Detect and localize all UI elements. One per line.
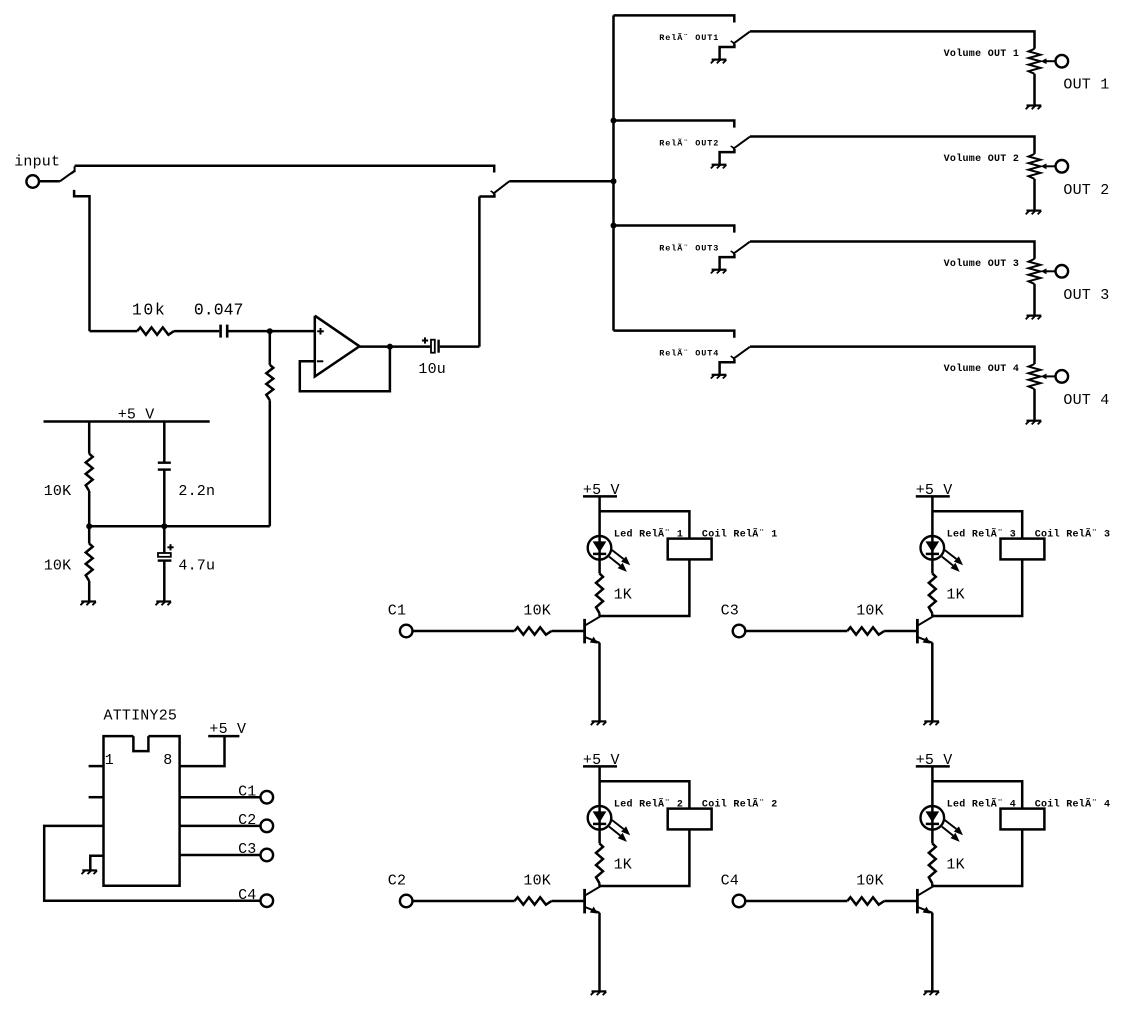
LED D3 <box>921 536 945 560</box>
svg-text:1K: 1K <box>946 857 964 874</box>
wire (branch to relay 3) <box>614 226 735 233</box>
label 0.047 <box>194 301 244 320</box>
wire (+5V rail) <box>44 420 210 423</box>
LED D4 light arrows <box>942 820 963 842</box>
svg-text:2.2n: 2.2n <box>178 483 215 500</box>
label Led RelA" 3 <box>947 527 1016 541</box>
label C3 <box>238 841 256 858</box>
label Led RelA" 4 <box>947 797 1016 811</box>
LED D1 <box>588 536 612 560</box>
svg-text:RelÃ¨ OUT4: RelÃ¨ OUT4 <box>659 347 719 358</box>
node (bus branch 3) <box>611 223 617 229</box>
wire <box>598 766 601 843</box>
LED D1 light arrows <box>609 550 630 572</box>
wire <box>1033 74 1036 106</box>
label 1K <box>614 587 632 604</box>
ground (driver 3) <box>924 721 940 725</box>
wire <box>745 630 847 633</box>
wire <box>269 331 272 365</box>
output jack OUT 1 <box>1056 55 1069 68</box>
label C2 <box>238 812 256 829</box>
pot 2 wiper arrow <box>1041 163 1055 169</box>
resistor 10K (driver 4) <box>847 897 884 904</box>
svg-text:C1: C1 <box>388 603 406 620</box>
label RelA" OUT3 <box>659 242 719 253</box>
label 10K <box>523 873 551 890</box>
transistor Q1 <box>585 616 601 644</box>
wire (relay 1 to volume pot) <box>750 31 1035 48</box>
ground (relay 3) <box>711 270 727 274</box>
jack C1 <box>261 791 274 804</box>
svg-text:Coil RelÃ¨ 1: Coil RelÃ¨ 1 <box>702 527 778 541</box>
wire (pin 4 to ground) <box>90 856 103 870</box>
wire <box>440 345 480 348</box>
label Volume OUT 2 <box>944 153 1020 165</box>
label OUT 2 <box>1063 182 1109 199</box>
label Volume OUT 3 <box>944 258 1020 270</box>
jack C1 (driver input) <box>400 625 413 638</box>
capacitor 4.7u (polarized) <box>158 544 174 560</box>
wire (emitter) <box>931 913 934 991</box>
relay coil K3 <box>1001 539 1045 560</box>
wire <box>1033 284 1036 316</box>
relay switch K4 arm <box>731 347 750 359</box>
wire (pin 3 to C4) <box>44 826 260 901</box>
power +5 V label <box>118 406 155 423</box>
wire <box>39 180 60 183</box>
svg-text:10K: 10K <box>44 558 72 575</box>
wire <box>229 330 315 333</box>
power +5 V label (driver 1) <box>583 482 620 499</box>
label C1 (driver input) <box>388 603 406 620</box>
jack C3 (driver input) <box>733 625 746 638</box>
switch SW1 lower throw <box>74 190 89 331</box>
wire <box>933 559 1022 616</box>
svg-text:+5 V: +5 V <box>209 721 246 738</box>
label 1K <box>946 587 964 604</box>
label C4 <box>238 887 256 904</box>
label ATTINY25 <box>104 707 178 724</box>
pot 4 wiper arrow <box>1041 374 1055 380</box>
resistor 10K (driver 2) <box>515 897 552 904</box>
label C1 <box>238 783 256 800</box>
ground (driver 4) <box>924 991 940 995</box>
node <box>161 523 167 529</box>
relay switch K1 arm <box>731 32 750 44</box>
wire <box>413 900 515 903</box>
svg-text:10K: 10K <box>856 603 884 620</box>
potentiometer Volume 3 <box>1029 259 1041 284</box>
svg-text:Volume OUT 4: Volume OUT 4 <box>944 363 1020 375</box>
net label "input" <box>14 153 60 170</box>
label C4 (driver input) <box>721 873 739 890</box>
wire <box>88 581 91 601</box>
svg-text:1K: 1K <box>946 587 964 604</box>
svg-text:C3: C3 <box>721 603 739 620</box>
wire (branch to relay 1) <box>614 15 735 22</box>
wire <box>745 900 847 903</box>
node (output junction) <box>387 344 393 350</box>
wire <box>598 496 601 573</box>
power +5V bar (IC) <box>208 735 239 738</box>
svg-text:Coil RelÃ¨ 2: Coil RelÃ¨ 2 <box>702 797 778 811</box>
wire (relay 2 to volume pot) <box>750 137 1035 154</box>
wire <box>163 470 166 527</box>
resistor (bias, vertical) <box>266 365 273 400</box>
op-amp U1 <box>315 316 360 377</box>
switch SW1 arm <box>60 166 75 181</box>
ground (relay 2) <box>711 165 727 169</box>
LED D3 light arrows <box>942 550 963 572</box>
relay coil K2 <box>668 809 712 830</box>
pot 3 wiper arrow <box>1041 268 1055 274</box>
jack C2 <box>261 820 274 833</box>
svg-text:OUT 3: OUT 3 <box>1063 287 1109 304</box>
svg-text:1K: 1K <box>614 587 632 604</box>
svg-text:10u: 10u <box>418 361 446 378</box>
relay switch K4 pole+ground <box>720 359 735 375</box>
wire <box>90 330 138 333</box>
ground (pot 4) <box>1026 421 1042 425</box>
wire (top line to SW2 throw) <box>75 166 495 173</box>
svg-text:4.7u: 4.7u <box>178 558 215 575</box>
svg-text:RelÃ¨ OUT2: RelÃ¨ OUT2 <box>659 137 719 148</box>
svg-text:10K: 10K <box>44 483 72 500</box>
power +5V bar (driver 4) <box>916 765 950 768</box>
relay coil K1 <box>668 539 712 560</box>
wire <box>601 559 690 616</box>
potentiometer Volume 1 <box>1029 49 1041 74</box>
wire <box>88 526 91 543</box>
ground (relay 1) <box>711 60 727 64</box>
wire (output bus) <box>612 15 615 330</box>
power +5V bar (driver 3) <box>916 495 950 498</box>
svg-text:Volume OUT 1: Volume OUT 1 <box>944 48 1020 60</box>
wire <box>931 613 934 616</box>
wire <box>933 829 1022 886</box>
svg-text:C2: C2 <box>238 812 256 829</box>
svg-text:OUT 4: OUT 4 <box>1063 392 1109 409</box>
wire (C1 pin) <box>180 796 261 799</box>
LED D2 light arrows <box>609 820 630 842</box>
power +5 V label (IC) <box>209 721 246 738</box>
potentiometer Volume 2 <box>1029 154 1041 179</box>
svg-text:Volume OUT 2: Volume OUT 2 <box>944 153 1020 165</box>
wire (op-amp output) <box>360 345 431 348</box>
label C2 (driver input) <box>388 873 406 890</box>
resistor 10K (lower) <box>86 544 93 581</box>
power +5 V label (driver 3) <box>916 482 953 499</box>
wire <box>163 561 166 602</box>
wire (coil branch) <box>600 781 690 808</box>
pin number 8 <box>163 752 172 769</box>
wire <box>931 766 934 843</box>
label Coil RelA" 2 <box>702 797 778 811</box>
output jack OUT 3 <box>1056 265 1069 278</box>
wire (C2 pin) <box>180 825 261 828</box>
svg-text:ATTINY25: ATTINY25 <box>104 707 178 724</box>
label Coil RelA" 4 <box>1035 797 1111 811</box>
jack C3 <box>261 849 274 862</box>
node (op-amp + input junction) <box>267 328 273 334</box>
wire <box>174 330 219 333</box>
label 10u <box>418 361 446 378</box>
label 2.2n <box>178 483 215 500</box>
relay coil K4 <box>1001 809 1045 830</box>
svg-text:10K: 10K <box>523 603 551 620</box>
pin 1 stub <box>89 765 104 768</box>
resistor 10K (driver 3) <box>847 627 884 634</box>
IC U2 ATTINY25 body <box>104 736 180 886</box>
wire (relay 4 to volume pot) <box>750 347 1035 364</box>
svg-text:C2: C2 <box>388 873 406 890</box>
output jack OUT 2 <box>1056 160 1069 173</box>
svg-text:Volume OUT 3: Volume OUT 3 <box>944 258 1020 270</box>
svg-text:C4: C4 <box>721 873 739 890</box>
transistor Q2 <box>585 886 601 914</box>
svg-text:OUT 1: OUT 1 <box>1063 77 1109 94</box>
svg-text:Coil RelÃ¨ 3: Coil RelÃ¨ 3 <box>1035 527 1111 541</box>
wire <box>931 496 934 573</box>
relay switch K3 pole+ground <box>720 254 735 270</box>
resistor 10K (upper) <box>86 454 93 491</box>
pin number 1 <box>105 752 114 769</box>
transistor Q3 <box>917 616 933 644</box>
wire <box>884 900 916 903</box>
relay switch K2 pole+ground <box>720 149 735 165</box>
relay switch K1 pole+ground <box>720 44 735 60</box>
power +5 V label (driver 2) <box>583 752 620 769</box>
label OUT 3 <box>1063 287 1109 304</box>
wire <box>163 526 166 553</box>
LED D4 <box>921 806 945 830</box>
jack C4 (driver input) <box>733 895 746 908</box>
wire (branch to relay 2) <box>614 121 735 128</box>
resistor 10K (driver 1) <box>515 627 552 634</box>
wire <box>1033 179 1036 211</box>
wire (feedback loop) <box>300 347 390 392</box>
wire <box>413 630 515 633</box>
svg-text:8: 8 <box>163 752 172 769</box>
node (bus-SW2 junction) <box>611 178 617 184</box>
resistor 1K (driver 1) <box>596 573 603 613</box>
wire (coil branch) <box>932 511 1022 538</box>
label Led RelA" 1 <box>614 527 683 541</box>
wire (bias feed) <box>89 525 270 528</box>
ground (pot 1) <box>1026 106 1042 110</box>
svg-text:1K: 1K <box>614 857 632 874</box>
label RelA" OUT2 <box>659 137 719 148</box>
input jack J1 <box>26 175 39 188</box>
capacitor 10u (polarized) <box>422 337 439 352</box>
label 10K <box>44 483 72 500</box>
LED D2 <box>588 806 612 830</box>
wire <box>601 829 690 886</box>
svg-text:10k: 10k <box>132 301 167 320</box>
resistor 10k <box>137 327 174 334</box>
power +5V bar (driver 2) <box>583 765 617 768</box>
label Coil RelA" 1 <box>702 527 778 541</box>
wire <box>552 630 584 633</box>
wire <box>1033 389 1036 421</box>
svg-text:1: 1 <box>105 752 114 769</box>
wire (emitter) <box>598 643 601 721</box>
label Coil RelA" 3 <box>1035 527 1111 541</box>
svg-text:RelÃ¨ OUT1: RelÃ¨ OUT1 <box>659 32 719 43</box>
label 10K <box>523 603 551 620</box>
ground (pot 2) <box>1026 211 1042 215</box>
output jack OUT 4 <box>1056 370 1069 383</box>
wire <box>931 883 934 886</box>
wire <box>884 630 916 633</box>
ground (driver 2) <box>591 991 607 995</box>
ground (relay 4) <box>711 375 727 379</box>
svg-text:RelÃ¨ OUT3: RelÃ¨ OUT3 <box>659 242 719 253</box>
label 4.7u <box>178 558 215 575</box>
wire <box>478 197 481 347</box>
label 10K <box>856 603 884 620</box>
switch SW2 arm <box>491 181 510 194</box>
label C3 (driver input) <box>721 603 739 620</box>
pin 2 stub <box>89 796 104 799</box>
pot 1 wiper arrow <box>1041 58 1055 64</box>
resistor 1K (driver 3) <box>929 573 936 613</box>
svg-text:C1: C1 <box>238 783 256 800</box>
svg-text:Coil RelÃ¨ 4: Coil RelÃ¨ 4 <box>1035 797 1111 811</box>
label RelA" OUT4 <box>659 347 719 358</box>
label Led RelA" 2 <box>614 797 683 811</box>
label Volume OUT 4 <box>944 363 1020 375</box>
svg-text:input: input <box>14 153 60 170</box>
wire (coil branch) <box>932 781 1022 808</box>
wire (coil branch) <box>600 511 690 538</box>
capacitor 2.2n <box>158 463 171 470</box>
resistor 1K (driver 2) <box>596 843 603 883</box>
ground (divider) <box>80 602 96 606</box>
wire <box>552 900 584 903</box>
jack C2 (driver input) <box>400 895 413 908</box>
label RelA" OUT1 <box>659 32 719 43</box>
ground (driver 1) <box>591 721 607 725</box>
transistor Q4 <box>917 886 933 914</box>
label 10K <box>856 873 884 890</box>
ground (4.7u) <box>156 602 172 606</box>
ground (IC) <box>82 870 98 874</box>
wire (emitter) <box>931 643 934 721</box>
label 1K <box>614 857 632 874</box>
node <box>86 523 92 529</box>
power +5V bar (driver 1) <box>583 495 617 498</box>
relay switch K2 arm <box>731 137 750 149</box>
svg-text:10K: 10K <box>523 873 551 890</box>
jack C4 <box>261 894 274 907</box>
wire (branch to relay 4) <box>614 331 735 338</box>
wire <box>269 400 272 526</box>
svg-text:10K: 10K <box>856 873 884 890</box>
label 10k <box>132 301 167 320</box>
node (bus branch 2) <box>611 118 617 124</box>
label 1K <box>946 857 964 874</box>
wire <box>163 422 166 462</box>
svg-text:OUT 2: OUT 2 <box>1063 182 1109 199</box>
resistor 1K (driver 4) <box>929 843 936 883</box>
wire <box>509 180 613 183</box>
relay switch K3 arm <box>731 242 750 254</box>
label 10K <box>44 558 72 575</box>
capacitor 0.047 <box>221 325 228 338</box>
ground (pot 3) <box>1026 316 1042 320</box>
wire <box>88 422 91 454</box>
svg-text:C4: C4 <box>238 887 256 904</box>
svg-text:C3: C3 <box>238 841 256 858</box>
wire (pin 8 to +5V) <box>180 736 225 766</box>
wire (emitter) <box>598 913 601 991</box>
label OUT 1 <box>1063 77 1109 94</box>
svg-text:0.047: 0.047 <box>194 301 244 320</box>
wire <box>88 491 91 526</box>
wire (C3 pin) <box>180 854 261 857</box>
wire <box>598 613 601 616</box>
wire <box>598 883 601 886</box>
label OUT 4 <box>1063 392 1109 409</box>
switch SW2 pole <box>479 194 494 197</box>
potentiometer Volume 4 <box>1029 364 1041 389</box>
wire (relay 3 to volume pot) <box>750 242 1035 259</box>
label Volume OUT 1 <box>944 48 1020 60</box>
power +5 V label (driver 4) <box>916 752 953 769</box>
